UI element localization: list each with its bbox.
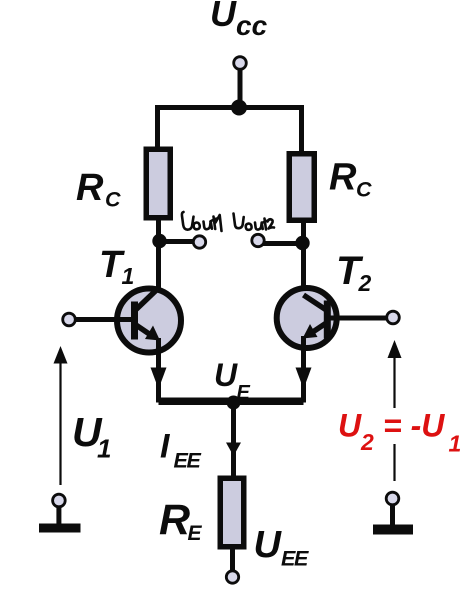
voltage arrow U2 xyxy=(388,340,402,481)
label T1 xyxy=(99,244,134,289)
svg-text:= -U: = -U xyxy=(383,408,445,444)
transistor Q2 T2 xyxy=(277,288,337,348)
svg-text:R: R xyxy=(329,157,357,199)
wire input2 to T2 base xyxy=(329,316,387,321)
svg-text:U: U xyxy=(214,357,238,393)
node collector T1 xyxy=(152,234,166,248)
terminal input1 xyxy=(63,313,76,326)
svg-text:E: E xyxy=(187,449,202,473)
wire node to Uout2 terminal xyxy=(260,241,303,246)
label T2 xyxy=(336,249,372,296)
label UE xyxy=(214,357,251,404)
label RC right xyxy=(329,157,372,202)
wire T1 emitter down to UE rail xyxy=(159,338,234,400)
label RC left xyxy=(76,167,121,212)
svg-text:U: U xyxy=(338,408,362,444)
resistor R1 RC-left xyxy=(146,149,170,218)
label IEE xyxy=(160,428,202,473)
svg-text:E: E xyxy=(188,522,203,545)
ground left xyxy=(39,494,81,532)
svg-text:1: 1 xyxy=(449,431,462,457)
current arrow T2 emitter xyxy=(296,368,312,390)
net label Ucc xyxy=(210,0,268,41)
wire Ucc terminal to top rail xyxy=(238,70,243,109)
resistor R3 RE xyxy=(220,478,244,547)
label RE xyxy=(159,496,203,545)
label U2 = -U1 red xyxy=(338,408,461,457)
terminal Uout2 xyxy=(252,234,264,246)
wire top rail with corners xyxy=(158,108,302,154)
svg-text:1: 1 xyxy=(97,434,111,464)
current arrow IEE xyxy=(226,443,241,457)
wire input1 to T1 base xyxy=(76,317,135,322)
svg-text:cc: cc xyxy=(236,10,268,41)
svg-text:2: 2 xyxy=(358,270,372,296)
wire UE rail exact xyxy=(159,400,304,405)
svg-text:I: I xyxy=(160,428,171,466)
label UEE xyxy=(254,524,310,571)
annotation Uout1 handwritten xyxy=(182,212,222,231)
node junction at Ucc rail xyxy=(231,100,247,116)
terminal Ucc xyxy=(234,57,247,70)
ground right xyxy=(373,492,413,534)
voltage arrow U1 xyxy=(54,346,68,485)
transistor Q1 T1 xyxy=(117,288,181,353)
terminal input2 xyxy=(387,311,400,324)
annotation Uout2 handwritten xyxy=(234,214,275,230)
wire RC-right bottom to T2 collector xyxy=(301,223,306,297)
terminal UEE xyxy=(226,571,238,583)
svg-text:U: U xyxy=(254,524,283,566)
label U1 xyxy=(72,409,111,464)
wire RE bottom to UEE terminal xyxy=(230,550,235,572)
svg-text:1: 1 xyxy=(122,263,135,289)
node collector T2 xyxy=(295,236,309,250)
svg-text:C: C xyxy=(356,178,372,202)
terminal Uout1 xyxy=(193,236,205,248)
svg-text:R: R xyxy=(76,167,104,209)
node UE junction xyxy=(227,396,241,410)
svg-text:2: 2 xyxy=(360,429,374,455)
svg-text:E: E xyxy=(294,547,309,571)
wire RC-left bottom to T1 collector xyxy=(156,221,161,293)
wire UE junction down to RE xyxy=(231,403,236,477)
current arrow T1 emitter xyxy=(151,368,167,390)
wire node to Uout1 terminal xyxy=(160,239,198,244)
wire T2 emitter down to UE rail xyxy=(234,336,304,400)
svg-text:U: U xyxy=(210,0,237,34)
resistor R2 RC-right xyxy=(289,154,314,221)
svg-text:C: C xyxy=(105,188,121,212)
svg-text:R: R xyxy=(159,496,190,544)
